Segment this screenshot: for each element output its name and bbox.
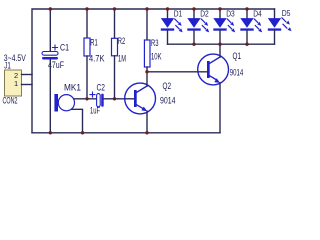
wire LED D3 anode [219,9,221,18]
microphone MK1 body circle [58,95,74,111]
wire J1 pin 1 stub [22,84,33,86]
wire Q1 collector to LED cathode rail [219,44,221,57]
transistor Q1 body circle [198,54,229,85]
capacitor C1 positive plate [42,52,58,56]
junction dot D2 on LED cathode rail [192,43,195,46]
wire MK1 output to C2 [74,98,97,100]
LED D3 cathode bar [213,28,226,30]
svg-text:R3: R3 [151,38,159,48]
wire LED D5 anode [274,9,276,18]
wire Q2 emitter to ground rail [146,111,148,133]
junction dot D4 on LED cathode rail [245,43,248,46]
svg-text:R2: R2 [118,36,126,46]
junction dot C1 on V+ rail [49,7,52,10]
resistor R1 body [84,38,90,56]
wire C1 branch from V+ rail [49,9,51,52]
svg-text:1: 1 [14,79,18,88]
wire R1 branch from V+ rail [86,9,88,38]
wire R2 branch from V+ rail [114,9,116,38]
wire LED D1 anode [167,9,169,18]
LED D4 cathode bar [240,28,253,30]
wire R3 branch from V+ rail [146,9,148,40]
wire C1 to ground rail [49,60,51,133]
junction dot D1 on V+ rail [166,7,169,10]
LED D2 emission arrows [201,19,205,23]
wire LED D5 cathode [274,31,276,45]
Q1 collector stroke [210,57,220,63]
junction dot R1 / MK1 / C2 node [85,97,88,100]
junction dot R3 on V+ rail [145,7,148,10]
LED D2 diode triangle [187,18,200,28]
junction dot R2 / Q2 base node [113,97,116,100]
svg-text:C2: C2 [97,83,106,93]
wire R3 to node A [146,67,148,72]
wire LED D4 cathode [246,31,248,45]
svg-text:D5: D5 [282,9,291,18]
LED D3 emission arrows [227,19,231,23]
LED D4 diode triangle [240,18,253,28]
svg-text:9014: 9014 [230,67,244,77]
svg-text:R1: R1 [90,38,98,48]
capacitor C1 negative plate [42,57,58,60]
junction dot Q2 emitter on ground rail [145,131,148,134]
LED D5 cathode bar [268,28,281,30]
wire MK1 return to ground rail [72,109,83,133]
junction dot D2 on V+ rail [192,7,195,10]
svg-text:C1: C1 [60,43,69,53]
capacitor C2 positive plate [97,94,101,107]
LED D4 emission arrows [254,19,257,23]
svg-text:CON2: CON2 [3,96,18,106]
microphone MK1 electret bar [54,94,58,112]
junction dot D4 on V+ rail [245,7,248,10]
wire LED D1 cathode [167,31,169,45]
svg-text:D1: D1 [174,10,183,19]
wire LED D4 anode [246,9,248,18]
connector J1 body [5,70,22,96]
svg-text:9014: 9014 [160,96,176,106]
Q2 base bar [134,90,137,107]
Q1 emitter stroke [210,76,216,80]
transistor Q2 body circle [125,83,156,114]
wire node A to Q1 base [147,71,207,73]
wire left rail and V+ top rail [32,9,275,133]
capacitor C2 negative plate [101,94,104,107]
wire J1 pin 2 stub [22,74,33,76]
Q2 collector stroke [137,86,147,92]
wire R2 to Q2 base node [114,56,116,99]
svg-text:J1: J1 [4,61,11,71]
junction dot node A (R3 / Q2 collector / Q1 base) [145,70,148,73]
Q2 emitter arrowhead [141,107,147,112]
junction dot D3 / Q1 collector on LED cathode rail [218,43,221,46]
svg-text:D4: D4 [253,10,262,19]
LED D5 diode triangle [268,18,281,28]
wire Q1 emitter to ground rail [219,83,221,133]
junction dot MK1 on ground rail [81,131,84,134]
wire C2 to Q2 base [104,98,135,100]
LED D1 emission arrows [175,19,179,23]
C2 polarity plus sign [90,92,95,97]
LED D1 cathode bar [161,28,174,30]
svg-text:1uF: 1uF [90,105,100,115]
wire LED cathode rail [168,43,275,45]
C1 polarity plus sign [53,45,58,50]
Q1 base bar [207,61,210,78]
junction dot R1 on V+ rail [85,7,88,10]
LED D3 diode triangle [213,18,226,28]
svg-text:D2: D2 [200,10,209,19]
svg-text:D3: D3 [226,10,235,19]
Q2 emitter stroke [137,105,143,109]
svg-text:1M: 1M [118,53,126,63]
svg-text:Q1: Q1 [233,51,242,61]
Q1 emitter arrowhead [214,78,220,83]
wire ground bottom rail [32,132,220,134]
junction dot D3 on V+ rail [218,7,221,10]
svg-text:Q2: Q2 [163,81,172,91]
wire LED D2 anode [193,9,195,18]
svg-text:10K: 10K [151,51,162,61]
wire LED D2 cathode [193,31,195,45]
wire R1 to mic node [86,56,88,99]
svg-text:MK1: MK1 [64,82,81,92]
junction dot R2 on V+ rail [113,7,116,10]
LED D2 cathode bar [187,28,200,30]
LED D5 emission arrows [282,18,286,22]
resistor R2 body [112,38,118,56]
resistor R3 body [144,40,150,67]
junction dot C1 on ground rail [49,131,52,134]
LED D1 diode triangle [161,18,174,28]
wire Q2 collector to node A [146,72,148,86]
wire LED D3 cathode [219,31,221,45]
svg-text:4.7K: 4.7K [89,54,105,64]
